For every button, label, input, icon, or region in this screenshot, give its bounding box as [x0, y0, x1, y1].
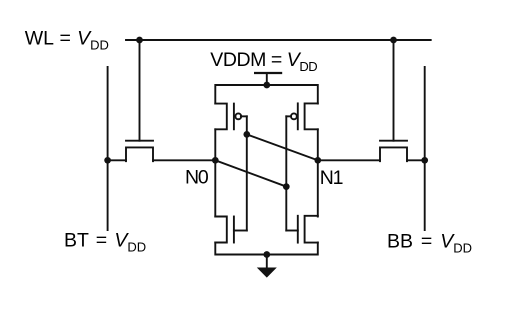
junction dot right gate column / cross-couple — [283, 183, 290, 190]
junction dot WL/left access gate — [136, 37, 143, 44]
svg-text:WL = VDD: WL = VDD — [25, 28, 109, 53]
power VDDM stem — [266, 73, 268, 85]
wire left inverter gate column — [246, 116, 248, 230]
transistor left PMOS: gate bubble — [235, 113, 241, 119]
junction dot BT/access source — [104, 157, 111, 164]
transistor left access NMOS: gate lead from WL — [139, 40, 141, 141]
wire VDDM top rail with end drops — [215, 85, 317, 104]
svg-text:BT = VDD: BT = VDD — [64, 229, 146, 254]
junction dot bottom rail / ground — [263, 251, 270, 258]
wire WL word line rail — [126, 39, 431, 41]
transistor right access NMOS: gate lead from WL — [393, 40, 395, 141]
transistor right NMOS: drain/source legs and channel — [305, 216, 318, 243]
svg-text:VDDM = VDD: VDDM = VDD — [210, 49, 317, 74]
wire right inverter gate column — [285, 116, 287, 230]
svg-text:BB = VDD: BB = VDD — [387, 230, 472, 255]
wire N1 to right access drain — [318, 159, 380, 161]
wire bottom source rail with end risers — [215, 243, 317, 255]
transistor left NMOS: gate wire to column — [234, 230, 247, 232]
svg-text:N1: N1 — [320, 167, 343, 189]
transistor right access NMOS: gate bar — [380, 140, 407, 142]
wire cross-couple diagonal N0 to right-gate — [215, 160, 286, 186]
wire BT to left access source — [108, 159, 126, 161]
transistor right PMOS: gate wire to column — [286, 115, 291, 117]
junction dot WL/right access gate — [390, 37, 397, 44]
transistor right access NMOS: channel with source/drain legs — [380, 147, 407, 161]
junction dot VDDM/top rail — [263, 82, 270, 89]
transistor left PMOS: gate bar — [233, 104, 235, 130]
transistor left NMOS: gate bar — [233, 217, 235, 243]
transistor right PMOS: source/drain legs and channel — [305, 103, 318, 129]
wire right access source to BB — [407, 159, 425, 161]
wire BB bit line column — [424, 67, 426, 230]
transistor left PMOS: source/drain legs and channel — [215, 104, 227, 130]
ground symbol triangle — [257, 268, 277, 278]
wire N0 column (PMOS drain to NMOS drain) — [214, 129, 216, 216]
transistor right NMOS: gate wire to column — [286, 230, 298, 232]
transistor right PMOS: gate bubble — [291, 113, 297, 119]
wire cross-couple diagonal left-gate to N1 — [247, 134, 318, 160]
junction dot left gate column / cross-couple — [243, 131, 250, 138]
power VDDM supply T-bar — [255, 72, 281, 74]
node N0 junction dot — [212, 157, 219, 164]
transistor left PMOS: gate wire to column — [241, 115, 247, 117]
wire left access drain to node N0 — [153, 159, 215, 161]
transistor left access NMOS: channel with source/drain legs — [126, 147, 153, 161]
transistor right NMOS: gate bar — [297, 216, 299, 243]
transistor right PMOS: gate bar — [297, 103, 299, 129]
wire N1 column (PMOS drain to NMOS drain) — [317, 129, 319, 216]
transistor left NMOS: drain/source legs and channel — [215, 217, 227, 243]
svg-text:N0: N0 — [185, 167, 209, 189]
transistor left access NMOS: gate bar — [126, 140, 153, 142]
node N1 junction dot — [314, 157, 321, 164]
ground stub — [266, 255, 268, 269]
junction dot BB/access source — [421, 157, 428, 164]
wire BT bit line column — [107, 67, 109, 230]
